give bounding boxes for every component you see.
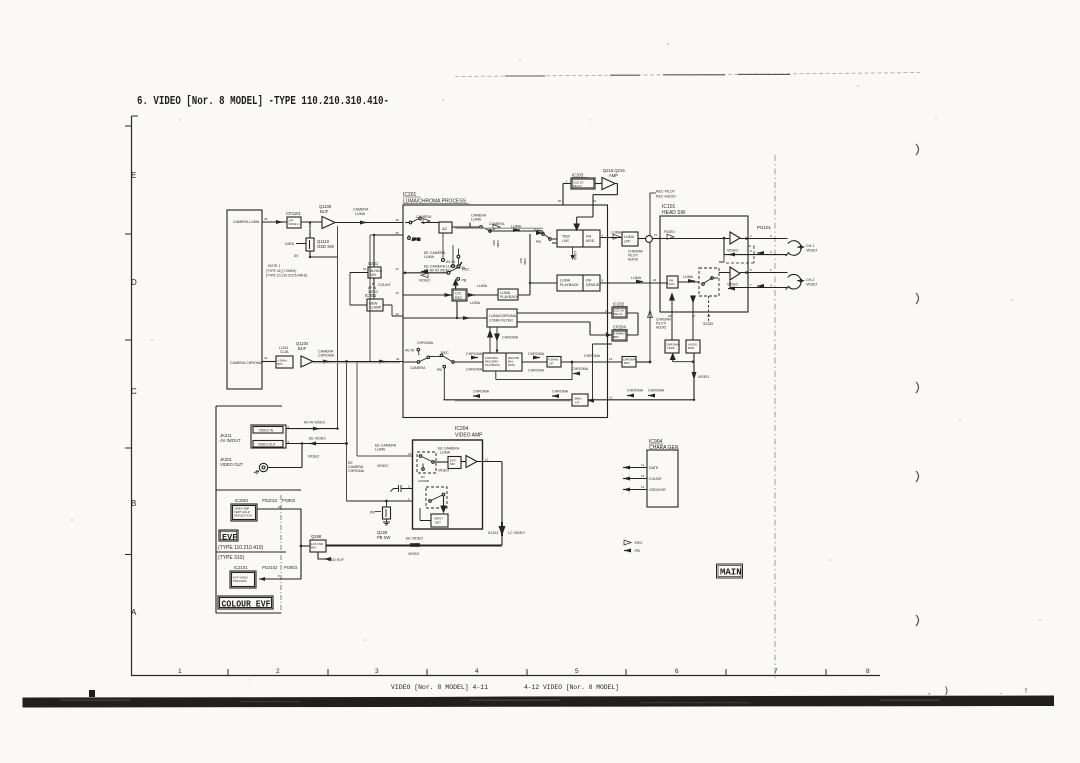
arrow luma playback <box>636 280 643 284</box>
head symbol CH2 <box>788 274 801 289</box>
svg-text:13: 13 <box>609 357 613 361</box>
svg-text:45: 45 <box>396 231 400 235</box>
svg-text:PG903: PG903 <box>282 498 296 503</box>
head symbol CH1 <box>788 241 801 256</box>
svg-text:EE AV IN VIDEO: EE AV IN VIDEO <box>424 269 451 273</box>
svg-text:6. VIDEO [Nor. 8 MODEL] -TYPE: 6. VIDEO [Nor. 8 MODEL] -TYPE 110.210.31… <box>137 95 389 108</box>
dashed switch box b <box>426 487 447 508</box>
LUMA/CHROMA COMB FILTER box <box>487 309 517 327</box>
svg-text:1: 1 <box>566 180 568 184</box>
arrow av in video <box>313 427 320 431</box>
svg-text:PG101: PG101 <box>757 225 772 230</box>
bottom ruler line <box>131 675 880 677</box>
svg-text::REC: :REC <box>634 541 643 545</box>
svg-text:LPF: LPF <box>624 240 631 244</box>
wire head2 return <box>730 281 788 288</box>
svg-text:PG2102: PG2102 <box>262 565 278 570</box>
arrow chroma r4 <box>648 394 655 398</box>
TBU/LNC FM MOD box <box>557 230 600 247</box>
svg-text:21: 21 <box>654 233 658 237</box>
arrow chroma r3 <box>627 394 634 398</box>
svg-text:CP204: CP204 <box>613 325 626 330</box>
svg-text:[TYPE 41] (7.0MHz): [TYPE 41] (7.0MHz) <box>266 269 296 273</box>
svg-text:13: 13 <box>641 474 645 478</box>
arrow camera chroma <box>323 360 330 364</box>
Q226 transistor <box>383 507 391 519</box>
wire LPF to node <box>638 238 646 240</box>
svg-text:L/F: L/F <box>575 401 580 405</box>
dashed switch box a <box>417 452 436 473</box>
svg-text:LUMA: LUMA <box>470 301 481 305</box>
bottom ruler ticks <box>228 669 826 676</box>
JK211 video-in box <box>253 427 283 434</box>
svg-text:CHROMA: CHROMA <box>502 336 519 340</box>
svg-text:AUDIO: AUDIO <box>628 258 639 262</box>
node bus Q268 <box>300 545 303 548</box>
EVF label box <box>219 530 238 541</box>
cap stub <box>391 485 413 492</box>
svg-text:REC: REC <box>441 351 449 355</box>
legend solid arrow <box>624 549 631 553</box>
pin41 wire <box>403 272 447 274</box>
arrow rec mid <box>536 231 543 235</box>
4.3MHz LPF box <box>547 357 561 368</box>
IC301 top wire <box>373 284 375 299</box>
wire AMP out feedback <box>577 184 618 229</box>
svg-text:OSD SW: OSD SW <box>317 244 334 249</box>
node q226 <box>385 500 388 503</box>
arrow chroma mid <box>533 356 540 360</box>
svg-text:LUMA: LUMA <box>424 255 435 259</box>
svg-text:VIDEO IN: VIDEO IN <box>259 429 274 433</box>
svg-text:VIDEO: VIDEO <box>438 469 449 473</box>
svg-text:MAIN: MAIN <box>720 568 742 578</box>
IC301 box <box>367 299 383 311</box>
Q268 EVF OSD MIX box <box>310 540 326 552</box>
svg-text:1: 1 <box>178 668 182 675</box>
arrow pin wire 3 <box>623 488 630 492</box>
svg-text:COUNT.: COUNT. <box>378 283 392 287</box>
svg-text:4: 4 <box>475 668 479 675</box>
svg-text:MOD: MOD <box>508 363 515 367</box>
svg-text:PB SW: PB SW <box>377 535 391 540</box>
svg-text:1: 1 <box>408 497 410 501</box>
C/C REC box <box>452 289 467 301</box>
svg-text:LUMA: LUMA <box>375 448 386 452</box>
open arrow pilot up <box>648 310 653 317</box>
arrow camera sw2 <box>493 225 500 230</box>
svg-text:2: 2 <box>750 234 752 238</box>
arrow chroma r1 <box>473 394 480 398</box>
arrow pin wire 2 <box>623 477 630 481</box>
arrow pin wire 1 <box>623 466 630 470</box>
switch luma 3 <box>542 233 545 236</box>
svg-text:6: 6 <box>675 668 679 675</box>
wire playback L <box>518 234 557 295</box>
svg-text:1000RB: 1000RB <box>418 479 429 483</box>
wire TBU to LUMA LPF <box>600 237 622 239</box>
svg-text:5: 5 <box>408 485 410 489</box>
svg-text:IC202: IC202 <box>613 302 625 307</box>
Q1105 BUF triangle <box>322 217 335 229</box>
wire IC301 left loop <box>350 273 368 306</box>
wire vertical x370 <box>370 235 403 362</box>
svg-text:CAMERA: CAMERA <box>416 215 432 219</box>
svg-text:4.2MHz: 4.2MHz <box>278 359 288 363</box>
svg-text:CHROMA: CHROMA <box>648 389 665 393</box>
svg-text:23: 23 <box>653 278 657 282</box>
svg-text:LUMA: LUMA <box>355 212 366 216</box>
svg-text:COUNT: COUNT <box>649 477 663 481</box>
wire vertical x346.5 video bus <box>346 362 348 502</box>
arrow ee video <box>309 442 316 446</box>
label PB arrow <box>375 511 381 513</box>
svg-text:VIDEO: VIDEO <box>806 249 817 253</box>
svg-text:LUMA: LUMA <box>477 284 488 288</box>
svg-text:AMP: AMP <box>609 173 618 178</box>
L1104 BPF box <box>276 356 293 368</box>
IC2101 box <box>230 571 256 588</box>
node dots misc <box>373 234 375 236</box>
svg-text:VIDEO: VIDEO <box>308 455 319 459</box>
svg-text:CH-1: CH-1 <box>806 244 814 248</box>
wire CC REC left pin44 <box>403 294 452 296</box>
svg-text:41: 41 <box>396 267 400 271</box>
svg-text:HEAD SW: HEAD SW <box>662 210 686 216</box>
svg-text:CAMERA LUMA: CAMERA LUMA <box>233 220 260 224</box>
svg-text:REC: REC <box>455 296 463 300</box>
svg-text:OSD/OVR: OSD/OVR <box>649 488 666 492</box>
svg-text:15: 15 <box>408 452 412 456</box>
svg-text:50: 50 <box>558 199 562 203</box>
wire video down k1103 <box>326 462 502 546</box>
wire IC2001 to PG bus <box>257 509 301 579</box>
svg-text:3: 3 <box>375 668 379 675</box>
svg-text:CAMERA CHROMA: CAMERA CHROMA <box>230 361 263 365</box>
svg-text:7: 7 <box>750 283 752 287</box>
EVF section divider top <box>216 405 282 407</box>
svg-text:45: 45 <box>264 217 268 221</box>
svg-text:2: 2 <box>276 668 280 675</box>
svg-text:VIDEO: VIDEO <box>377 464 388 468</box>
wire Q1105 to IC201 pin46 <box>335 222 403 224</box>
svg-text:VIDEO: VIDEO <box>698 375 709 379</box>
wire IC301 to pin43 <box>383 305 403 316</box>
node amp2 out <box>745 271 748 274</box>
svg-text:LC VIDEO: LC VIDEO <box>508 531 525 535</box>
svg-text:EE VIDEO: EE VIDEO <box>406 537 423 541</box>
svg-text:LPF: LPF <box>289 219 294 223</box>
node pilot <box>649 361 652 364</box>
svg-text:PLAYBACK: PLAYBACK <box>560 283 579 287</box>
svg-text:8: 8 <box>750 249 752 253</box>
dashed switch box <box>699 268 719 296</box>
bottom black bar <box>23 696 1055 708</box>
chroma row: switch camera/pb <box>403 356 452 362</box>
Q261 top wire <box>373 235 375 267</box>
head amp triangle 1 <box>730 232 740 244</box>
svg-text:VIDEO: VIDEO <box>727 249 738 253</box>
svg-text:CHROMA: CHROMA <box>473 390 490 394</box>
svg-text:27: 27 <box>692 314 696 318</box>
svg-text:LUMA: LUMA <box>471 218 482 222</box>
arrow video down <box>692 372 697 380</box>
svg-text:COLOUR EVF: COLOUR EVF <box>222 600 271 610</box>
svg-text:(TYPE 310): (TYPE 310) <box>218 555 244 561</box>
svg-text:Q268: Q268 <box>311 534 322 539</box>
chroma feedback loop <box>496 362 572 379</box>
svg-text:DELAY: DELAY <box>573 184 582 188</box>
CHROMA RECORD/PLAYBACK REC/PB BAL MOD box <box>483 353 522 371</box>
LUMA PLAYBACK FM DEMOD box <box>557 275 600 291</box>
svg-text:12: 12 <box>641 463 645 467</box>
svg-text:LNC: LNC <box>562 239 570 243</box>
amp triangle ic204 <box>466 456 477 468</box>
node chroma fb <box>571 361 574 364</box>
wire CP204 down to chroma wire <box>593 344 613 400</box>
switch a <box>419 455 422 458</box>
svg-text:TRAP: TRAP <box>667 346 675 350</box>
svg-text:D: D <box>131 278 137 287</box>
wire to 4.3 lpf <box>522 361 547 363</box>
switch luma 2 <box>480 226 483 229</box>
svg-text:FM: FM <box>586 279 591 283</box>
wire CP1101 to Q1105 <box>301 221 322 223</box>
svg-text:): ) <box>945 685 948 695</box>
arrow head1 <box>757 251 764 255</box>
svg-text:28: 28 <box>707 314 711 318</box>
Q1104 BUF triangle <box>301 356 313 367</box>
wire pb row <box>347 500 413 502</box>
svg-text:CLAMP: CLAMP <box>369 306 382 310</box>
svg-text:43: 43 <box>396 312 400 316</box>
svg-text:PLAYBACK: PLAYBACK <box>485 363 500 367</box>
svg-text:S2252: S2252 <box>703 322 713 326</box>
svg-text:REC AUDIO: REC AUDIO <box>656 195 676 199</box>
wire into input det <box>420 508 431 521</box>
svg-text:VIDEO AMP: VIDEO AMP <box>455 433 483 439</box>
Q261 label wire COUNT <box>372 278 374 284</box>
svg-text:PB: PB <box>437 368 442 372</box>
svg-text:14: 14 <box>641 485 645 489</box>
svg-text:AV IN: AV IN <box>405 349 415 353</box>
svg-text:CHROMA: CHROMA <box>572 367 589 371</box>
svg-text:VIDEO OUT: VIDEO OUT <box>220 462 243 467</box>
svg-text:TBU/: TBU/ <box>562 235 570 239</box>
svg-text:CHROMA: CHROMA <box>627 389 644 393</box>
svg-text:VIDEO [Nor. 8 MODEL] 4-11: VIDEO [Nor. 8 MODEL] 4-11 <box>391 684 488 691</box>
label line REC PILOT <box>650 192 656 194</box>
svg-text:CHROMA: CHROMA <box>466 368 483 372</box>
svg-text:B: B <box>131 499 136 508</box>
svg-text:CHROMA: CHROMA <box>584 354 601 358</box>
svg-text:BPF: BPF <box>614 335 620 339</box>
svg-text:AV IN: AV IN <box>446 260 456 264</box>
arrow down to det <box>441 506 446 512</box>
svg-text:CHROMA: CHROMA <box>318 354 335 358</box>
wire vertical x357 EE video <box>357 362 412 457</box>
svg-text:LUMA: LUMA <box>624 235 635 239</box>
svg-text:PB: PB <box>536 240 541 244</box>
ic904 pin wire 1 <box>627 467 647 469</box>
svg-text:CHROMA: CHROMA <box>528 369 545 373</box>
svg-text:BUF: BUF <box>298 346 307 351</box>
IC101 box <box>660 216 748 312</box>
wire camera luma out <box>262 221 287 223</box>
svg-text:CAMERA: CAMERA <box>489 222 505 226</box>
AZ box <box>439 222 452 233</box>
svg-text:LUMA: LUMA <box>683 275 694 279</box>
wire camera chroma out <box>262 361 276 363</box>
IC202 loop to CP204 <box>627 313 638 335</box>
svg-text:CHROMA: CHROMA <box>552 390 569 394</box>
wire to chroma record <box>454 361 483 363</box>
svg-text:8: 8 <box>866 668 870 675</box>
pins bottom wires <box>672 296 693 340</box>
arrow ee video wire <box>410 543 417 547</box>
CHROMA BPF box <box>622 357 636 368</box>
svg-text:[TYPE 10.210.310:5.0MHz]: [TYPE 10.210.310:5.0MHz] <box>266 274 307 278</box>
svg-text:VIDEO OUT: VIDEO OUT <box>258 443 276 447</box>
wire sw to evf mix <box>434 461 448 463</box>
svg-text:LUMA: LUMA <box>611 231 622 235</box>
EVF section bottom border <box>216 612 281 614</box>
top faint scan line <box>455 73 922 77</box>
LUMA PLAYBACK small box <box>498 289 518 300</box>
svg-text:LUMA: LUMA <box>631 276 642 280</box>
mix node circle <box>646 236 653 243</box>
comb filter feed from CC REC <box>456 301 458 318</box>
svg-text:AZ: AZ <box>442 226 448 231</box>
EVF section left border <box>215 406 217 613</box>
wire comb to IC202 <box>517 312 612 314</box>
wire Q1104 to IC201 pin40 <box>313 361 403 363</box>
wire lpf to bpf pin13 <box>561 361 622 363</box>
svg-text:6: 6 <box>770 234 772 238</box>
wire video in head <box>662 238 730 240</box>
svg-text:AUDIO: AUDIO <box>656 326 667 330</box>
JK201 jack <box>259 463 267 471</box>
binding mark 2 <box>916 293 919 304</box>
svg-text:42: 42 <box>264 356 268 360</box>
svg-text:BPF: BPF <box>278 362 284 366</box>
3MHz LPF box <box>572 394 588 406</box>
wire amp1 to head1 <box>740 238 788 240</box>
svg-text:CAMERA: CAMERA <box>410 366 426 370</box>
arrow luma fm <box>688 279 695 283</box>
svg-text:LUMA: LUMA <box>440 451 451 455</box>
CHROMA TRAP box <box>665 340 679 353</box>
arrow into IC2101 <box>259 577 265 581</box>
svg-text:PG2012: PG2012 <box>262 498 278 503</box>
wire pin43 comb <box>403 317 487 319</box>
wire Q268 out <box>326 545 502 547</box>
LUMA LPF box <box>622 232 638 246</box>
arrow camera sw1 <box>423 219 430 224</box>
svg-text:CHROMA: CHROMA <box>417 341 434 345</box>
arrow fideo <box>667 234 674 239</box>
svg-text:OSD EVF: OSD EVF <box>328 558 345 562</box>
wire luma playback row <box>600 282 668 284</box>
wire evf mix to tri <box>461 461 466 463</box>
wire comb to CP204 <box>517 322 612 335</box>
svg-text:5: 5 <box>575 668 579 675</box>
svg-text:DELAY: DELAY <box>614 312 623 316</box>
svg-text:C/C: C/C <box>455 292 462 296</box>
wire comb to chroma record <box>490 327 497 353</box>
arrow chroma b <box>573 372 580 376</box>
svg-text:46: 46 <box>396 218 400 222</box>
binding mark 4 <box>916 471 919 482</box>
svg-text:PLAYBACK: PLAYBACK <box>500 295 519 299</box>
wire OSD EVF stub <box>318 552 324 559</box>
arrow luma mid <box>513 228 520 232</box>
svg-text:12: 12 <box>609 396 613 400</box>
wire to input det <box>443 496 445 510</box>
svg-text:CH-2: CH-2 <box>806 278 814 282</box>
svg-text:5: 5 <box>278 574 280 578</box>
svg-text:FIDEO: FIDEO <box>664 230 675 234</box>
svg-text:VIDEO: VIDEO <box>727 283 738 287</box>
IC203 box <box>571 178 595 189</box>
left column labels <box>220 204 400 583</box>
svg-text:(TYPE 110.210.410): (TYPE 110.210.410) <box>218 545 264 551</box>
svg-text:EVF: EVF <box>222 533 237 543</box>
svg-text:4-12 VIDEO [Nor. 8 MODEL]: 4-12 VIDEO [Nor. 8 MODEL] <box>524 684 619 691</box>
column numbers <box>178 668 870 675</box>
INPUT DET box <box>431 514 448 527</box>
svg-text:COMB FILTER: COMB FILTER <box>489 319 513 323</box>
arrow chroma r2 <box>552 394 559 398</box>
switch in box <box>702 283 705 286</box>
wire tri out pin10 <box>477 461 502 463</box>
left ruler ticks <box>125 116 138 555</box>
wire to C/C REC <box>467 294 498 296</box>
wire audio video down <box>693 353 695 400</box>
wire AZ to TBU <box>452 223 557 244</box>
binding mark 3 <box>916 382 919 393</box>
node head1 junction <box>723 237 726 240</box>
CP204 box <box>612 330 627 341</box>
svg-text:DET: DET <box>435 521 441 525</box>
svg-text:5: 5 <box>750 268 752 272</box>
ic904 pin wire 2 <box>627 478 647 480</box>
svg-text:REC PILOT: REC PILOT <box>656 190 676 194</box>
switch luma in <box>405 219 419 223</box>
svg-text:MIX: MIX <box>370 273 377 277</box>
svg-text:A: A <box>131 608 137 617</box>
svg-text:5V: 5V <box>294 254 299 258</box>
wire sw b in <box>413 500 430 502</box>
scan speckles <box>71 43 1041 681</box>
arrow k1103 down <box>499 526 506 536</box>
binding mark 5 <box>916 615 919 626</box>
svg-text:VIDEO: VIDEO <box>408 552 419 556</box>
svg-text:PB: PB <box>370 511 375 515</box>
stub AV IN 45 <box>408 237 411 240</box>
svg-text:IC301: IC301 <box>365 293 377 298</box>
svg-text:AF IN: AF IN <box>412 238 421 242</box>
svg-text:4: 4 <box>770 284 772 288</box>
wire pin45 row <box>374 234 403 236</box>
svg-text:16: 16 <box>605 309 609 313</box>
MAIN box <box>717 564 743 578</box>
wire bus to Q268 <box>301 545 310 547</box>
svg-text:PG903: PG903 <box>284 565 298 570</box>
camera block box <box>227 210 262 389</box>
wire vertical x337.5 OSD/AV <box>337 226 339 429</box>
svg-text:20: 20 <box>278 505 282 509</box>
